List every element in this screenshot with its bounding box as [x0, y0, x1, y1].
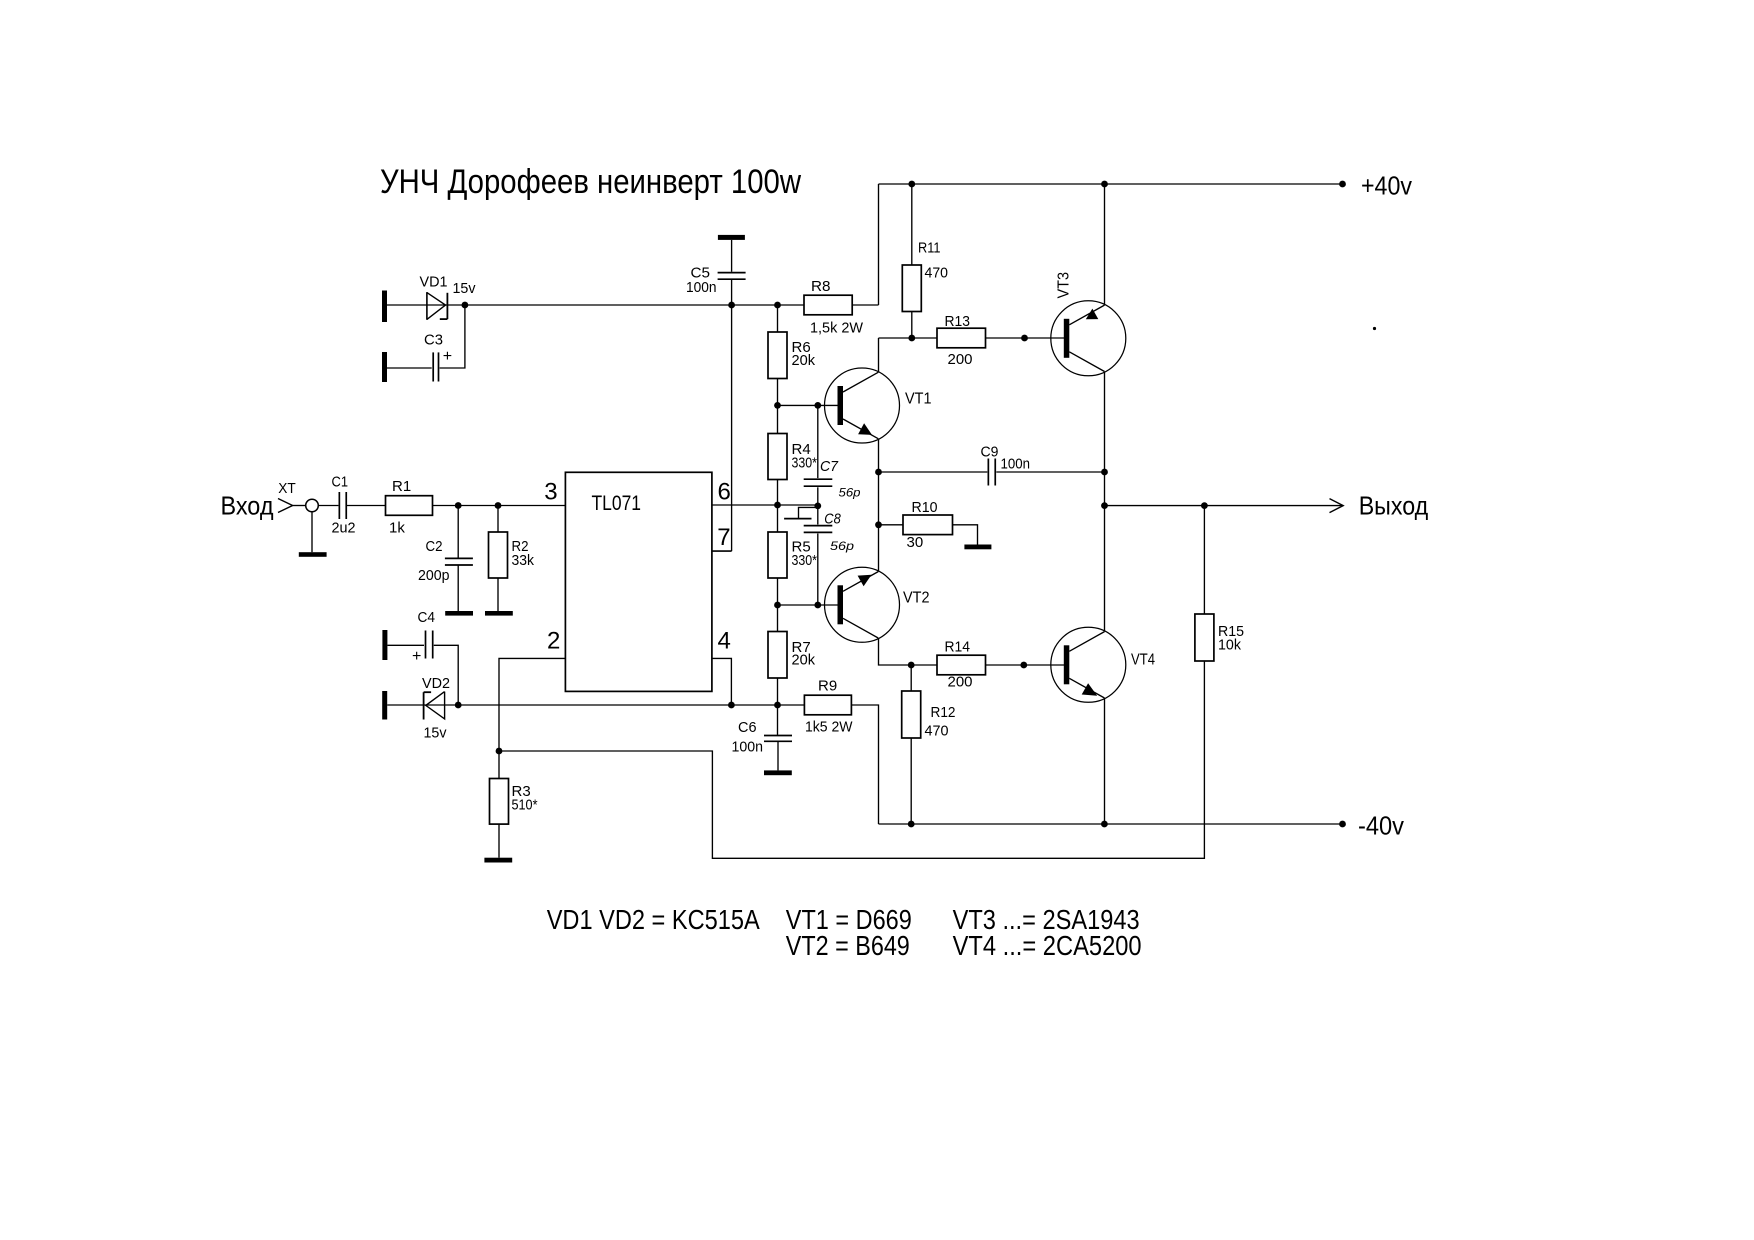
resistor R1: [386, 496, 433, 516]
wire riser to +40v rail: [878, 184, 880, 305]
wire C5 to pin7 tab: [731, 280, 733, 551]
ground at C6: [764, 770, 792, 775]
svg-text:+: +: [443, 348, 452, 365]
svg-text:VT4 ...= 2CA5200: VT4 ...= 2CA5200: [953, 930, 1142, 961]
zener diode VD1 cathode tail: [440, 318, 448, 320]
resistor R7: [768, 632, 787, 679]
op-amp U1 TL071 body: [565, 472, 712, 691]
svg-text:470: 470: [925, 723, 949, 740]
wire +40v to VT3 emitter: [1104, 184, 1106, 305]
wire VT1 base: [778, 404, 839, 406]
svg-text:VT3: VT3: [1056, 272, 1073, 299]
wire R2 to ground: [497, 578, 499, 611]
node VD1 row junction C5: [728, 302, 735, 309]
svg-text:15v: 15v: [424, 725, 447, 742]
svg-text:100n: 100n: [1001, 456, 1031, 473]
node -40v junction VT4: [1101, 821, 1108, 828]
wire feedback line: [499, 661, 1204, 858]
resistor R15: [1195, 614, 1214, 661]
wire to C2: [457, 506, 459, 559]
node output junction: [1101, 502, 1108, 509]
wire R13 to VT3 base: [986, 337, 1065, 339]
capacitor C9: [987, 459, 989, 486]
wire R4 to pin6 row: [777, 480, 779, 506]
capacitor C6: [764, 735, 792, 737]
capacitor C3: [432, 352, 434, 381]
svg-text:C3: C3: [424, 332, 443, 349]
resistor R6: [768, 332, 787, 379]
svg-text:20k: 20k: [792, 651, 816, 668]
wire R7 to VD2 row: [777, 678, 779, 705]
node output junction R15: [1201, 502, 1208, 509]
resistor R12: [902, 691, 921, 738]
svg-text:100n: 100n: [732, 739, 764, 756]
transistor VT2: [825, 567, 900, 642]
capacitor C1: [338, 492, 340, 519]
resistor R3: [490, 779, 509, 825]
node pin6 junction chain: [774, 502, 781, 509]
node +40v junction R11: [908, 181, 915, 188]
node VT1 base junction chain: [774, 402, 781, 409]
node +40v junction VT3: [1101, 181, 1108, 188]
svg-text:100n: 100n: [686, 279, 717, 296]
transistor VT1: [825, 368, 900, 443]
svg-text:R14: R14: [945, 639, 971, 656]
ground at R10: [964, 545, 991, 550]
resistor R4: [768, 434, 787, 480]
node R13 row junction R11: [908, 335, 915, 342]
terminal bar VD2: [382, 691, 387, 720]
svg-text:C6: C6: [738, 719, 757, 736]
pin 7 stub tab bottom: [712, 550, 732, 552]
resistor R5: [768, 532, 787, 578]
svg-text:C1: C1: [332, 474, 349, 491]
svg-text:3: 3: [544, 478, 557, 505]
node VT2 base junction C8: [814, 602, 821, 609]
zener diode VD1 cathode bar: [446, 293, 448, 319]
wire C7 to pin6 node: [817, 487, 819, 524]
wire to R2: [497, 506, 499, 533]
svg-text:1,5k 2W: 1,5k 2W: [810, 320, 864, 337]
node -40v junction R12: [908, 821, 915, 828]
-40v rail wire: [879, 823, 1343, 825]
resistor R9: [804, 695, 851, 715]
wire XT to C1: [318, 505, 338, 507]
wire VT3 collector down: [1104, 372, 1106, 632]
terminal bar C4: [382, 630, 387, 660]
svg-text:56p: 56p: [830, 539, 854, 553]
zener diode VD2 cathode tail: [424, 691, 432, 693]
node pin2 riser junction feedback line: [496, 748, 503, 755]
node VT3 out junction C9: [1101, 469, 1108, 476]
terminal bar C5 top: [718, 235, 745, 240]
svg-text:R9: R9: [818, 678, 837, 695]
wire VT1 collector riser: [878, 338, 880, 373]
wire VT1 base node to C7: [817, 405, 819, 478]
wire VT4 emitter to -40v rail: [1104, 698, 1106, 824]
svg-text:20k: 20k: [792, 352, 816, 369]
wire C3 to node: [440, 305, 465, 368]
node VD1 junction C3: [462, 302, 469, 309]
svg-text:10k: 10k: [1218, 637, 1241, 654]
svg-text:2: 2: [547, 628, 560, 655]
wire R6 to R4: [777, 379, 779, 434]
svg-text:1k5 2W: 1k5 2W: [805, 719, 853, 736]
zener diode VD2 cathode bar: [423, 692, 425, 719]
wire R1 to TL071 pin3: [433, 505, 566, 507]
node pin6 junction C7 C8: [814, 503, 821, 510]
svg-text:R13: R13: [945, 313, 971, 330]
svg-text:33k: 33k: [512, 552, 535, 569]
ground at XT bar: [299, 552, 327, 557]
wire C8 hook: [799, 507, 818, 518]
resistor R10: [903, 515, 953, 535]
wire R5 top: [777, 505, 779, 532]
svg-text:VT2: VT2: [903, 590, 930, 607]
svg-text:R10: R10: [912, 499, 938, 516]
svg-text:VD2: VD2: [422, 675, 450, 692]
svg-text:C9: C9: [981, 444, 999, 461]
svg-text:6: 6: [718, 479, 731, 506]
wire C1 to R1: [347, 505, 386, 507]
wire chain top: [777, 305, 779, 332]
svg-text:510*: 510*: [512, 797, 538, 814]
ground at C2: [445, 611, 473, 616]
node VT4 base junction: [1020, 662, 1027, 669]
wire R14 to VT4 base: [986, 664, 1065, 666]
svg-text:470: 470: [925, 265, 949, 282]
connector XT open arrow: [278, 499, 293, 513]
zener diode VD1 triangle: [426, 292, 428, 320]
wire C4 to VD2 row: [434, 645, 458, 705]
svg-text:TL071: TL071: [592, 492, 642, 515]
wire R5 to R7: [777, 578, 779, 632]
wire C8 to VT2 base node: [817, 534, 819, 606]
wire VT2 base: [778, 604, 839, 606]
ground at R3: [484, 858, 512, 863]
node emitter riser junction R10: [875, 521, 882, 528]
terminal bar VD1: [382, 291, 387, 323]
node VD1 row junction chain: [774, 302, 781, 309]
svg-text:УНЧ Дорофеев неинверт 100w: УНЧ Дорофеев неинверт 100w: [380, 163, 801, 201]
svg-text:VT1: VT1: [905, 391, 932, 408]
node +40v terminal dot: [1339, 181, 1346, 188]
wire C3 left: [387, 367, 432, 369]
wire C2 to ground: [457, 565, 459, 611]
wire output to R15: [1203, 506, 1205, 614]
node VT3 base junction: [1021, 335, 1028, 342]
wire pin2: [499, 658, 565, 778]
svg-text:VT4: VT4: [1131, 651, 1155, 668]
wire R10 to ground: [953, 525, 978, 545]
svg-text:200: 200: [948, 674, 973, 691]
wire R10 left: [879, 524, 904, 526]
svg-text:R11: R11: [918, 240, 941, 257]
node VD2 row junction chain: [774, 702, 781, 709]
capacitor C5: [718, 272, 746, 274]
svg-text:7: 7: [717, 524, 730, 551]
resistor R13: [937, 328, 986, 348]
svg-text:330*: 330*: [792, 455, 818, 472]
svg-text:2u2: 2u2: [332, 520, 356, 537]
ground at R2: [485, 611, 513, 616]
wire VT2 collector: [879, 638, 938, 665]
svg-text:VD1 VD2 = KC515A: VD1 VD2 = KC515A: [547, 904, 760, 935]
wire C5 stem: [731, 240, 733, 272]
node VD2 row junction C4: [455, 702, 462, 709]
wire output row: [1105, 505, 1344, 507]
wire C6 to ground: [777, 741, 779, 770]
node VD2 row junction pin4: [728, 702, 735, 709]
wire pin4: [712, 658, 732, 705]
stray mark: [1373, 327, 1376, 330]
node input junction C2: [455, 502, 462, 509]
wire R9 to -40v corner: [851, 705, 878, 824]
output open arrow: [1330, 499, 1344, 513]
wire C4 left: [387, 644, 424, 646]
svg-text:200p: 200p: [418, 567, 450, 584]
svg-text:15v: 15v: [453, 280, 476, 297]
ground at XT stem: [311, 512, 313, 552]
svg-text:-40v: -40v: [1358, 811, 1404, 841]
node VT1 base junction C7: [814, 402, 821, 409]
wire R8 to +40v riser: [852, 304, 878, 306]
svg-text:VT2 = B649: VT2 = B649: [786, 930, 910, 961]
wire pin6 row: [712, 504, 819, 506]
resistor R14: [937, 655, 986, 675]
capacitor C2: [445, 557, 473, 559]
resistor R8: [804, 295, 852, 315]
svg-text:30: 30: [907, 534, 924, 551]
capacitor C8: [804, 525, 833, 527]
wire R11 to R13 row: [911, 312, 913, 339]
node emitter riser junction C9: [875, 469, 882, 476]
wire VT1 emitter riser: [878, 439, 880, 572]
svg-text:+: +: [412, 648, 421, 665]
wire C9 row left: [879, 471, 988, 473]
svg-text:C4: C4: [418, 609, 436, 626]
+40v rail wire: [879, 183, 1343, 185]
svg-text:C8: C8: [824, 511, 841, 528]
wire R3 to ground: [498, 824, 500, 858]
svg-text:R1: R1: [392, 478, 411, 495]
svg-text:C7: C7: [820, 458, 839, 475]
capacitor C7: [804, 478, 833, 480]
terminal bar C3: [382, 352, 387, 382]
transistor VT4: [1051, 627, 1126, 702]
capacitor C4: [425, 631, 427, 659]
svg-text:200: 200: [948, 351, 973, 368]
svg-text:330*: 330*: [792, 552, 818, 569]
svg-text:R8: R8: [811, 278, 831, 295]
connector XT circle: [306, 499, 319, 512]
wire arrow to XT circle: [293, 505, 306, 507]
resistor R11: [902, 265, 921, 312]
wire R14 row to R12: [910, 665, 912, 691]
wire VD1 row: [387, 304, 804, 306]
wire R13 row left: [879, 337, 938, 339]
svg-text:4: 4: [718, 628, 731, 655]
svg-text:XT: XT: [278, 480, 296, 497]
wire +40v to R11: [911, 184, 913, 265]
wire VD2 row: [387, 704, 804, 706]
svg-text:Выход: Выход: [1359, 491, 1429, 521]
node input junction R2: [495, 502, 502, 509]
transistor VT3: [1051, 301, 1126, 376]
zener diode VD2 triangle: [426, 692, 445, 719]
capacitor C8 offset plate: [784, 518, 811, 520]
svg-text:1k: 1k: [389, 520, 405, 537]
svg-text:VD1: VD1: [420, 274, 448, 291]
svg-text:Вход: Вход: [221, 491, 274, 521]
wire chain to C6: [777, 705, 779, 735]
node R14 row junction R12: [908, 662, 915, 669]
resistor R2: [489, 532, 508, 578]
svg-text:+40v: +40v: [1361, 171, 1412, 201]
wire R12 to -40v rail: [910, 738, 912, 824]
svg-text:56p: 56p: [839, 485, 861, 499]
wire C9 row right: [996, 471, 1104, 473]
svg-text:R12: R12: [931, 704, 956, 721]
svg-text:C2: C2: [426, 538, 443, 555]
node -40v terminal dot: [1339, 821, 1346, 828]
node VT2 base junction chain: [774, 602, 781, 609]
